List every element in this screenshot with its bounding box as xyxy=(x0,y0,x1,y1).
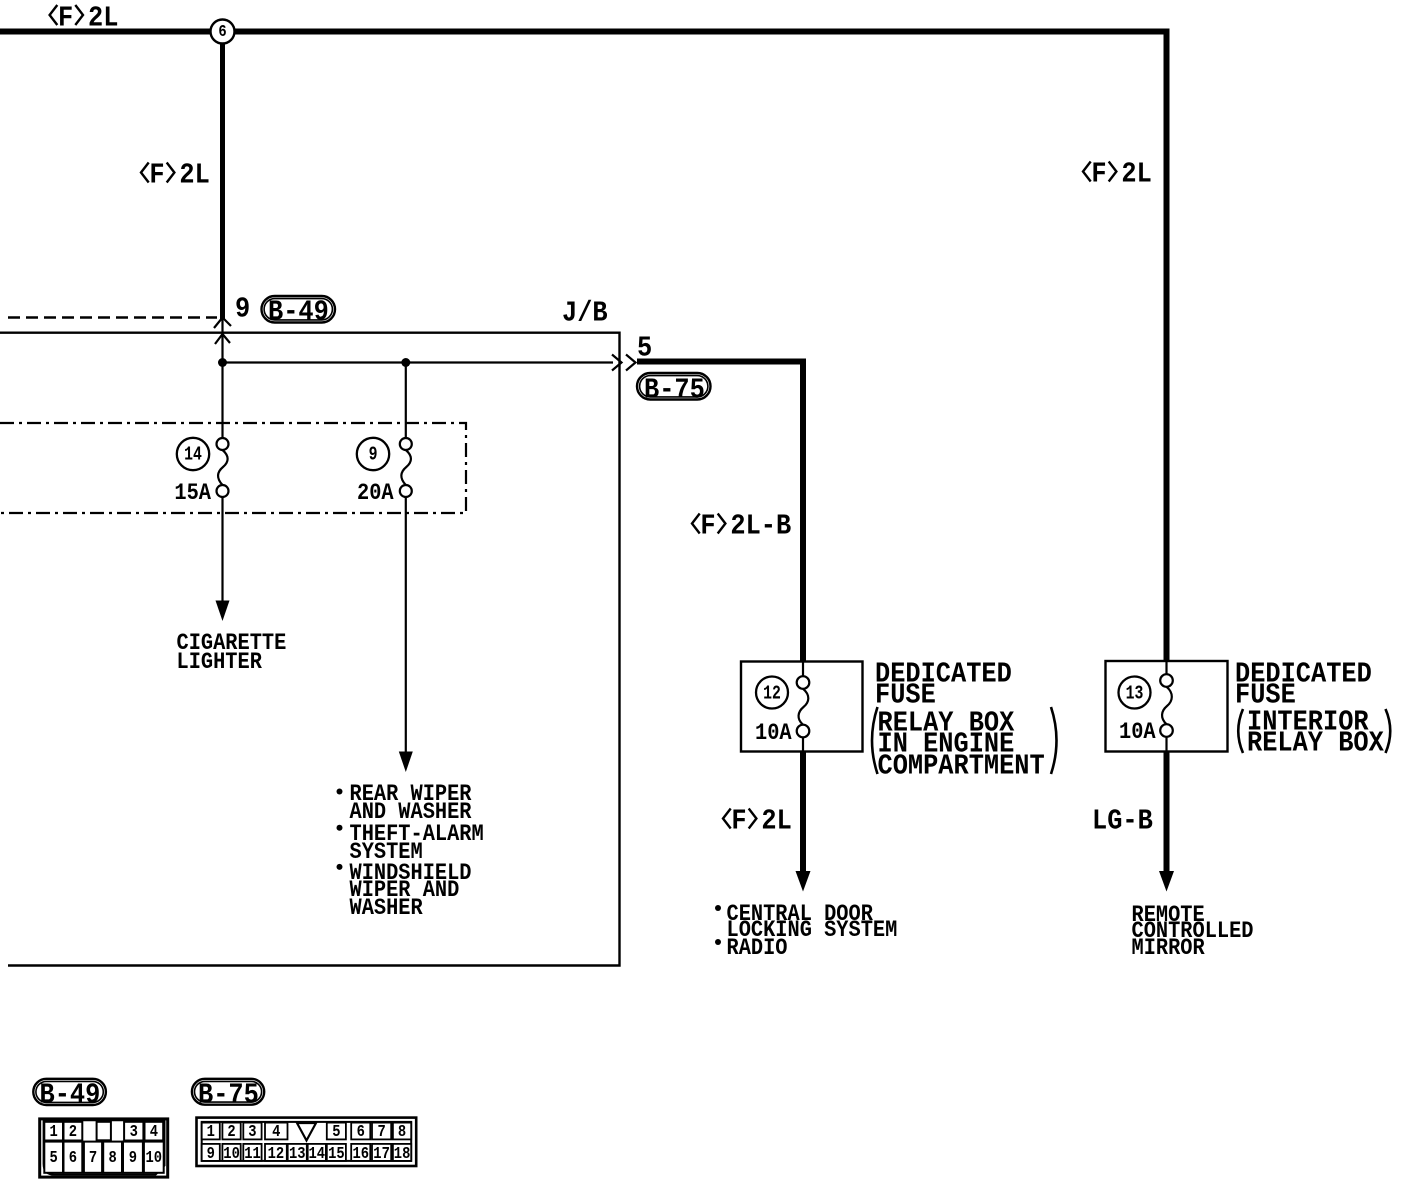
fuse 13 element squiggle xyxy=(1162,687,1172,724)
B-49 pin number 6 xyxy=(69,1151,77,1168)
bullet: radio xyxy=(715,939,721,945)
B-75 pin number 14 xyxy=(309,1147,326,1164)
fuse number 14 xyxy=(184,446,202,466)
B-75 pin 2 cavity xyxy=(222,1123,240,1140)
fuse 12 element squiggle xyxy=(799,689,809,725)
connector name B-49 (pinout) xyxy=(40,1081,101,1110)
fuse number 13 xyxy=(1126,685,1144,705)
B-49 pin number 2 xyxy=(69,1125,77,1142)
splice number 6 xyxy=(218,25,226,42)
junction splice 6 xyxy=(211,20,235,44)
fuse 9 rating 20A xyxy=(357,483,394,507)
J/B junction block outline xyxy=(0,333,620,966)
fuse number 9 xyxy=(369,446,378,466)
connector arrow out of J/B terminal 5 (chevron 2) xyxy=(626,355,636,371)
B-49 pin 7 cavity xyxy=(84,1142,102,1173)
parenthesis right (interior relay box) xyxy=(1386,709,1391,753)
B-49 pin number 4 xyxy=(150,1125,158,1142)
B-75 pin number 1 xyxy=(207,1125,215,1142)
junction dot at fuse 14 branch xyxy=(218,358,227,367)
label (F)2L left drop: F xyxy=(149,161,164,190)
B-75 pin number 4 xyxy=(272,1125,280,1142)
load: radio xyxy=(727,938,788,962)
bullet: theft-alarm xyxy=(337,825,343,831)
wire: fuse 14 output to cigarette lighter xyxy=(221,497,223,602)
load: central door locking line 2 xyxy=(727,920,898,944)
connector label B-49 (pinout) (stadium outline) xyxy=(33,1079,106,1105)
B-75 pin number 3 xyxy=(248,1125,256,1142)
load: theft-alarm line 1 xyxy=(350,824,484,848)
B-49 pin number 3 xyxy=(130,1125,138,1142)
B-75 pin 1 cavity xyxy=(202,1123,220,1140)
fuse 13 feed wire inside box xyxy=(1165,661,1167,675)
B-75 pin number 10 xyxy=(223,1147,240,1164)
fuse number 12 xyxy=(763,685,781,705)
B-49 pin 10 cavity xyxy=(144,1142,164,1173)
B-75 pin number 13 xyxy=(289,1147,306,1164)
B-49 pin 8 cavity xyxy=(103,1142,122,1173)
dedicated fuse 12 box xyxy=(741,662,863,752)
B-49 pin number 8 xyxy=(109,1151,117,1168)
load: rear wiper line 1 xyxy=(350,784,472,808)
fuse 12 feed wire inside box xyxy=(802,662,804,678)
junction dot at fuse 9 branch xyxy=(401,358,410,367)
label (F)2L lower: 2L xyxy=(761,807,791,836)
load: windshield wiper line 2 xyxy=(350,880,460,904)
connector arrow into J/B (upper chevron) xyxy=(214,318,231,329)
load: remote mirror line 3 xyxy=(1132,938,1205,962)
connector label B-49 (at J/B pin 9) (stadium outline) xyxy=(262,296,336,323)
J/B terminal 9 label xyxy=(235,295,250,324)
B-49 pin 5 cavity xyxy=(44,1142,63,1173)
wire: thick (F)2L-B vertical down to dedicated fuse 12 xyxy=(800,359,806,662)
fuse 13 output wire inside box xyxy=(1165,737,1167,752)
B-75 pin 13 cavity xyxy=(288,1144,307,1161)
B-75 pin 10 cavity xyxy=(222,1144,240,1161)
B-49 pin 1 cavity xyxy=(44,1122,63,1141)
connector name B-75 (pinout) xyxy=(198,1081,259,1110)
B-49 pin number 9 xyxy=(129,1151,137,1168)
label (F)2L left drop: 2L xyxy=(179,161,209,190)
dedicated fuse 13 title line 2 xyxy=(1235,681,1296,710)
wire: inner J/B bus to terminal 5 xyxy=(223,361,614,363)
B-75 pin 4 cavity xyxy=(265,1123,288,1140)
big parenthesis left (relay box in engine compartment) xyxy=(872,707,878,774)
bullet: windshield wiper xyxy=(337,864,343,870)
label (F)2L top-left: F xyxy=(58,4,73,33)
B-49 pin number 7 xyxy=(89,1151,97,1168)
B-75 pin 11 cavity xyxy=(243,1144,261,1161)
parenthesis left (interior relay box) xyxy=(1238,709,1243,753)
B-75 pin number 12 xyxy=(268,1147,285,1164)
fuse 9 element squiggle xyxy=(401,450,411,485)
dedicated fuse 12 location line 2 xyxy=(878,730,1015,759)
B-75 pin number 17 xyxy=(373,1147,390,1164)
wire: LG-B to remote controlled mirror xyxy=(1164,752,1170,873)
B-75 pin number 16 xyxy=(353,1147,370,1164)
B-75 pin number 2 xyxy=(227,1125,235,1142)
B-49 blank cavity xyxy=(97,1122,111,1141)
big parenthesis right (relay box in engine compartment) xyxy=(1051,707,1057,774)
fuse 14 bottom terminal xyxy=(217,485,229,497)
dedicated fuse 13 box xyxy=(1106,661,1228,752)
load: remote mirror line 1 xyxy=(1132,905,1205,929)
bullet: central door locking xyxy=(715,905,721,911)
load: remote mirror line 2 xyxy=(1132,921,1254,945)
B-49 pin 9 cavity xyxy=(123,1142,143,1173)
arrow to cigarette lighter xyxy=(216,601,230,622)
fuse 9 id circle xyxy=(357,438,389,470)
B-75 pin 9 cavity xyxy=(202,1144,220,1161)
label (F)2L top-left: 2L xyxy=(88,4,118,33)
fuse 14 rating 15A xyxy=(174,483,211,507)
B-75 pin number 11 xyxy=(244,1147,261,1164)
multi-purpose fuse dash-dot boundary xyxy=(0,423,466,513)
B-49 pin number 5 xyxy=(50,1151,58,1168)
load: cigarette lighter line 2 xyxy=(177,652,262,676)
fuse 13 rating 10A xyxy=(1119,722,1156,746)
B-75 pin number 6 xyxy=(357,1125,365,1142)
wire: thick (F)2L-B horizontal from terminal 5 xyxy=(637,359,806,365)
fuse 14 top terminal xyxy=(217,438,229,450)
connector B-49 body outline xyxy=(40,1119,168,1177)
B-49 pin 3 cavity xyxy=(124,1122,143,1141)
J/B terminal 5 label xyxy=(637,334,652,363)
wire: battery feed (F)2L top horizontal xyxy=(0,29,1170,35)
B-49 pin number 10 xyxy=(146,1151,163,1168)
B-75 pin 8 cavity xyxy=(393,1123,411,1140)
fuse 13 id circle xyxy=(1119,677,1151,709)
wire label LG-B xyxy=(1092,807,1153,836)
wire: fuse 9 output to wiper circuits xyxy=(405,497,407,753)
fuse 14 element squiggle xyxy=(218,450,228,485)
B-75 pin number 5 xyxy=(332,1125,340,1142)
fuse 12 output wire inside box xyxy=(802,737,804,751)
B-75 pin 5 cavity xyxy=(327,1123,346,1140)
arrow to wiper circuits xyxy=(399,752,413,773)
B-75 pin number 9 xyxy=(207,1147,215,1164)
connector name B-75 (mid) xyxy=(644,376,705,405)
load: windshield wiper line 1 xyxy=(350,863,472,887)
B-49 pin 4 cavity xyxy=(145,1122,164,1141)
angle brackets of label (F)2L left drop xyxy=(141,163,149,183)
B-75 pin 6 cavity xyxy=(351,1123,370,1140)
dedicated fuse 13 title line 1 xyxy=(1235,660,1372,689)
B-75 pin 3 cavity xyxy=(243,1123,261,1140)
connector label B-75 (pinout) (stadium outline) xyxy=(192,1079,264,1105)
B-75 pin number 15 xyxy=(328,1147,345,1164)
fuse 14 id circle xyxy=(177,438,209,470)
B-49 pin 2 cavity xyxy=(64,1122,83,1141)
fuse 12 id circle xyxy=(756,677,788,709)
load: windshield wiper line 3 xyxy=(350,898,423,922)
label (F)2L-B (F)2L-B: 2L-B xyxy=(730,512,791,541)
B-75 pin 14 cavity xyxy=(308,1144,326,1161)
dedicated fuse 12 title line 1 xyxy=(875,660,1012,689)
fuse 9 top terminal xyxy=(400,438,412,450)
wire: right vertical (F)2L to dedicated fuse 13 xyxy=(1164,29,1170,662)
connector arrow out of J/B terminal 5 (chevron 1) xyxy=(612,355,622,371)
fuse 13 bottom terminal xyxy=(1160,724,1173,737)
label (F)2L right drop: F xyxy=(1091,160,1106,189)
load: rear wiper line 2 xyxy=(350,802,472,826)
angle brackets of label (F)2L lower xyxy=(723,809,731,829)
wire: bus drop to fuse 9 xyxy=(405,363,407,439)
wire: left vertical (F)2L drop to J/B connector B-49 pin 9 xyxy=(220,34,225,319)
connector B-75 body outline xyxy=(197,1118,417,1166)
fuse 12 top terminal xyxy=(797,676,810,689)
arrow to central door locking system xyxy=(796,871,811,892)
dedicated fuse 12 title line 2 xyxy=(875,681,936,710)
arrow to remote controlled mirror xyxy=(1159,871,1174,892)
B-75 keyway triangle xyxy=(297,1123,316,1141)
junction block label J/B xyxy=(562,299,608,328)
fuse 9 bottom terminal xyxy=(400,485,412,497)
angle brackets of label (F)2L top-left xyxy=(50,5,58,25)
fuse 12 rating 10A xyxy=(755,723,792,747)
B-75 pin 18 cavity xyxy=(393,1144,411,1161)
wire: thin vertical inside J/B to fuse 14 xyxy=(221,319,223,439)
load: cigarette lighter line 1 xyxy=(177,633,287,657)
connector arrow into J/B (lower chevron) xyxy=(215,334,230,344)
dedicated fuse 12 location line 1 xyxy=(878,709,1015,738)
label (F)2L right drop: 2L xyxy=(1121,160,1151,189)
B-75 pin 7 cavity xyxy=(372,1123,391,1140)
angle brackets of label (F)2L-B xyxy=(692,514,700,534)
load: central door locking line 1 xyxy=(727,904,873,928)
connector name B-49 (top) xyxy=(268,298,329,327)
wire: (F)2L to central door locking xyxy=(800,752,806,873)
load: theft-alarm line 2 xyxy=(350,842,423,866)
B-75 pin 16 cavity xyxy=(351,1144,370,1161)
bullet: rear wiper xyxy=(337,789,343,795)
B-49 pin 6 cavity xyxy=(64,1142,83,1173)
dedicated fuse 13 location line 1 xyxy=(1247,708,1369,737)
angle brackets of label (F)2L right drop xyxy=(1083,162,1091,182)
dedicated fuse 13 location line 2 xyxy=(1247,729,1384,758)
B-75 pin 15 cavity xyxy=(327,1144,346,1161)
wire: dashed branch at left into B-49 xyxy=(8,316,217,318)
label (F)2L lower: F xyxy=(731,807,746,836)
fuse 13 top terminal xyxy=(1160,674,1173,687)
connector label B-75 (at J/B pin 5) (stadium outline) xyxy=(637,373,711,400)
B-75 pin 12 cavity xyxy=(265,1144,287,1161)
B-75 pin number 8 xyxy=(398,1125,406,1142)
B-49 pin number 1 xyxy=(50,1125,58,1142)
label (F)2L-B (F)2L-B: F xyxy=(700,512,715,541)
fuse 12 bottom terminal xyxy=(797,725,810,738)
dedicated fuse 12 location line 3 xyxy=(878,752,1045,781)
B-75 pin number 7 xyxy=(378,1125,386,1142)
B-75 pin number 18 xyxy=(394,1147,411,1164)
B-75 pin 17 cavity xyxy=(372,1144,391,1161)
